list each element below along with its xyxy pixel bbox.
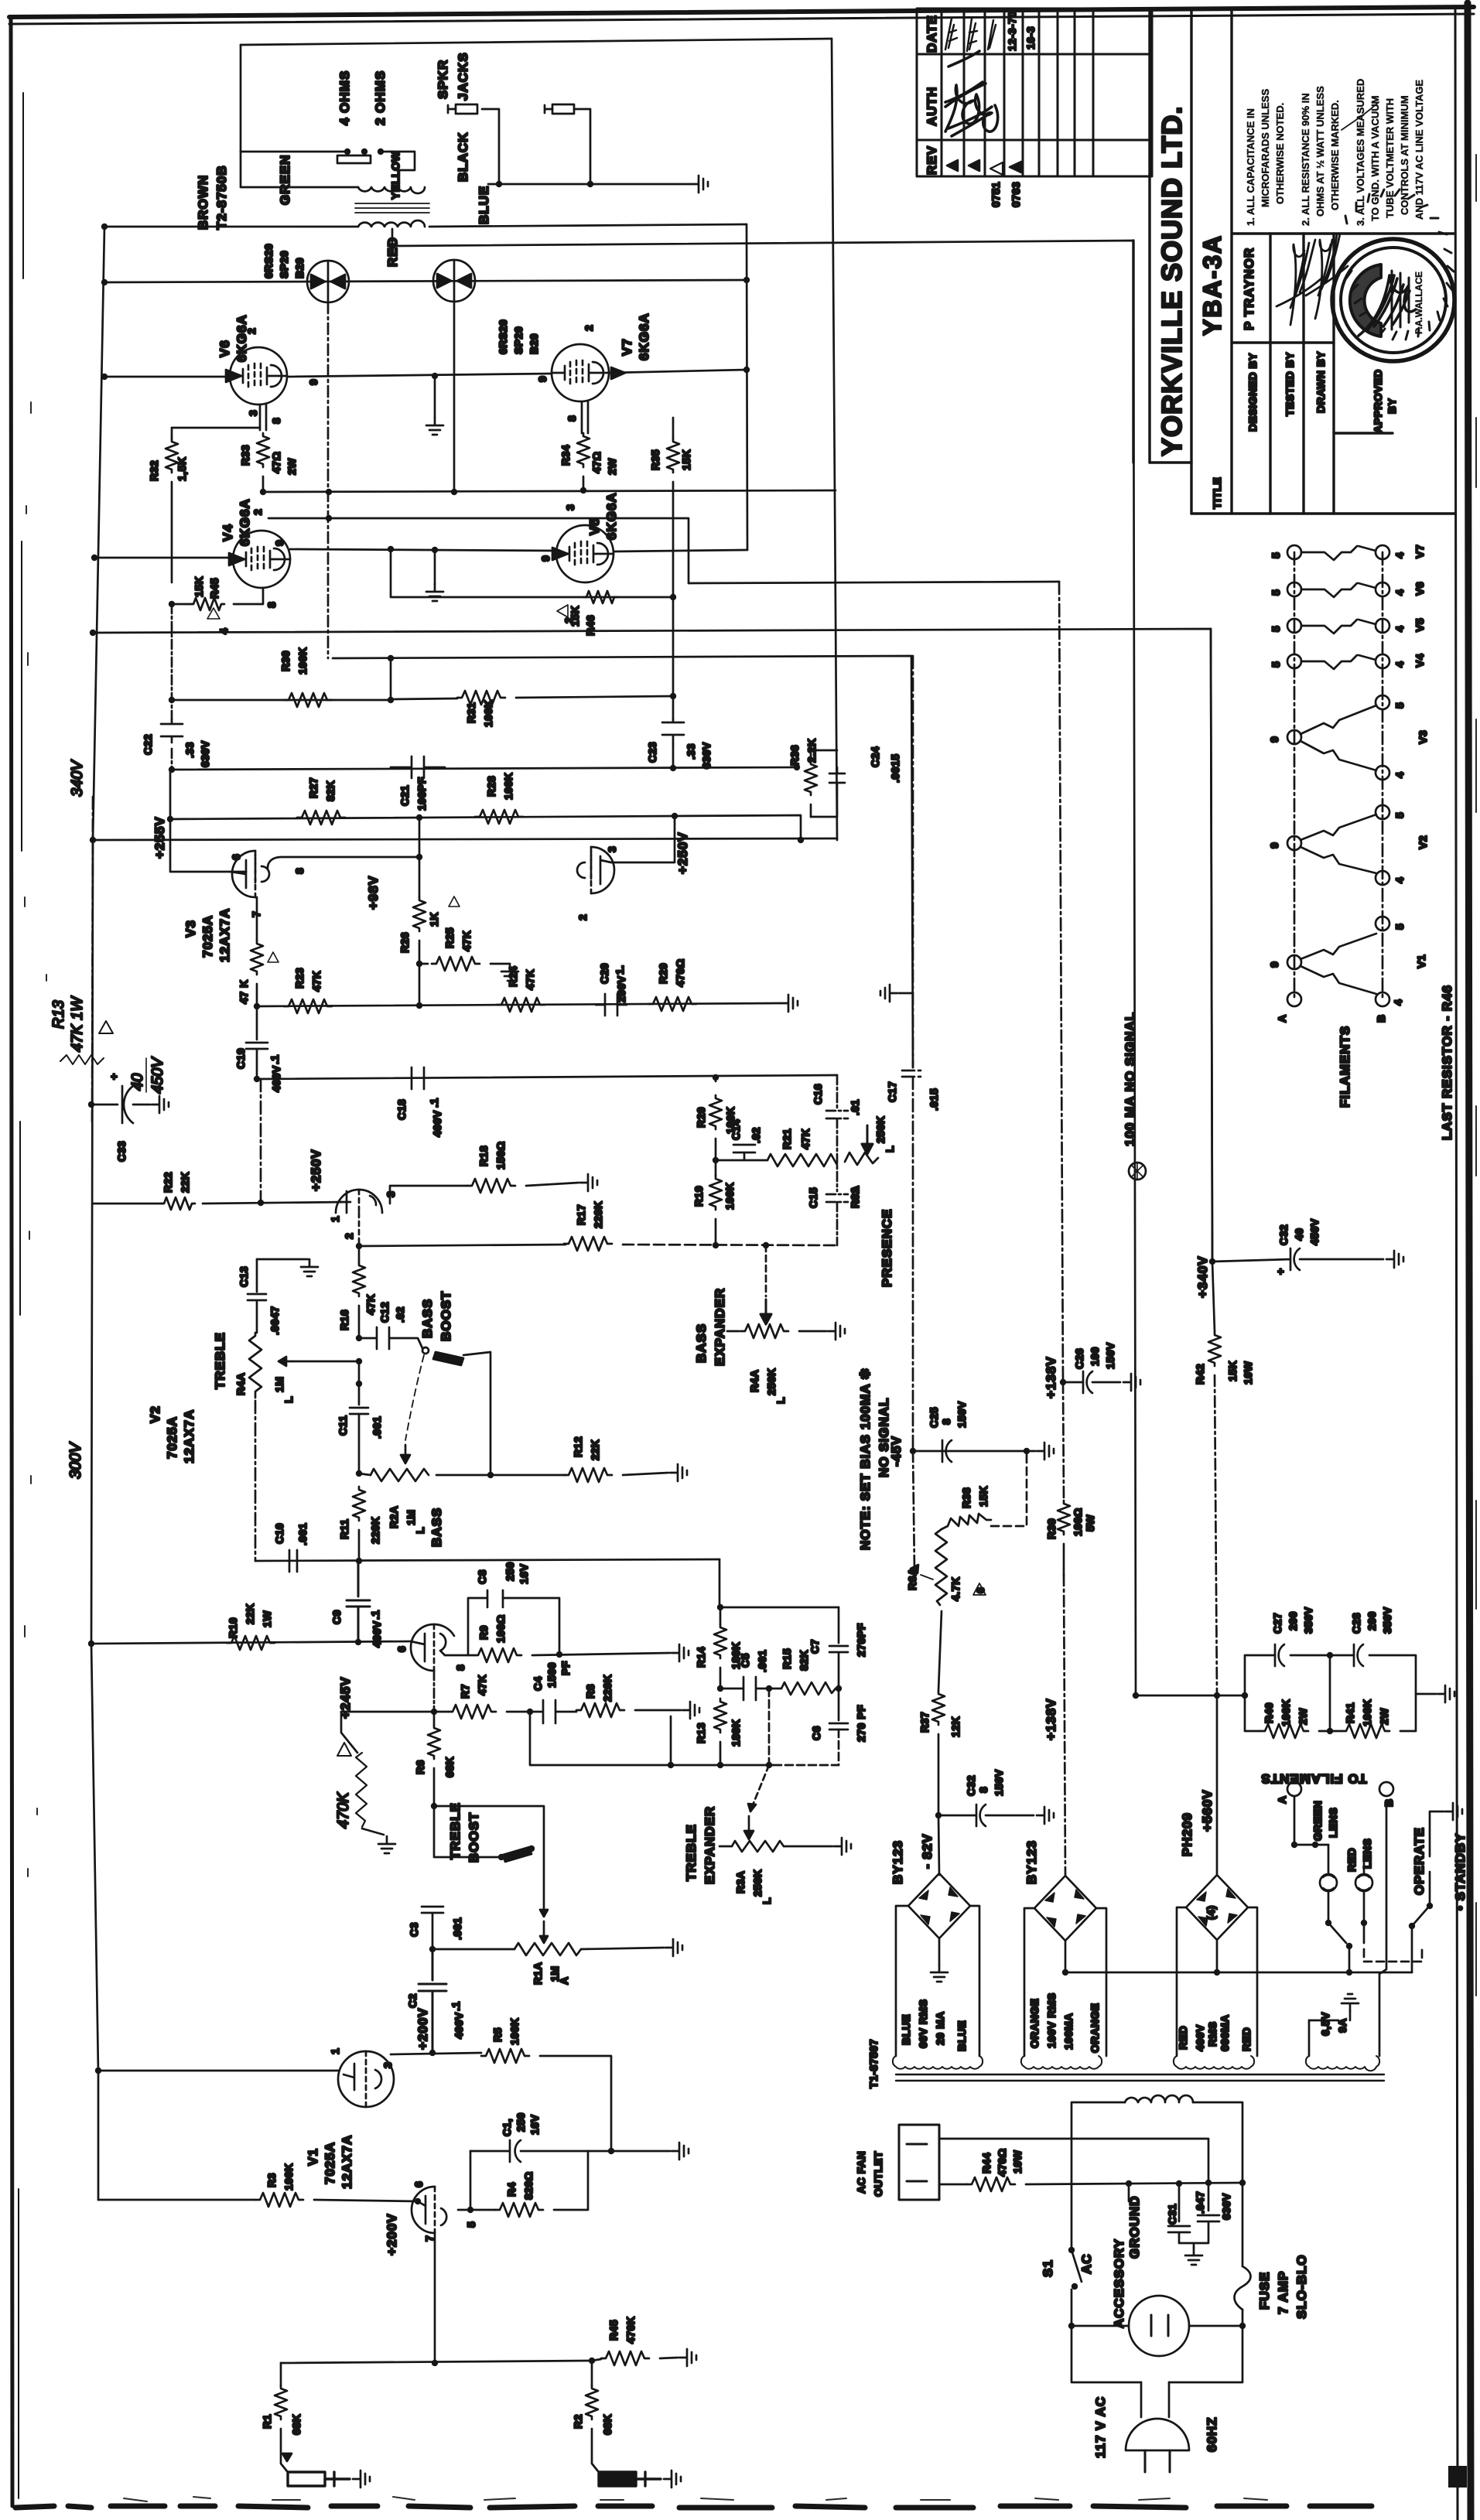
socket row V7 [1287,545,1301,559]
wire V2b cathode to R18 [390,1186,467,1204]
svg-text:47K: 47K [524,969,536,990]
svg-text:C33: C33 [115,1141,128,1162]
capacitor C6 [829,1689,848,1730]
svg-text:SPKR: SPKR [436,60,450,99]
svg-text:4: 4 [1392,999,1404,1006]
svg-text:.1: .1 [268,1054,281,1064]
svg-text:V6: V6 [1413,582,1426,596]
svg-text:V7: V7 [620,338,634,356]
pilot lamp circuit [1294,1796,1328,1845]
svg-text:2: 2 [562,617,575,623]
wire V1b plate row [91,1641,411,1644]
svg-text:REV: REV [925,145,939,175]
border right inner [1455,6,1458,2520]
svg-text:C7: C7 [808,1639,821,1654]
input jack J2 [599,2472,636,2486]
wire treble pot bottom column [255,1401,257,1561]
svg-text:AC: AC [1079,2253,1094,2274]
resistor 470K handwritten [341,1712,357,1753]
svg-text:1: 1 [329,2048,341,2054]
resistor R32 [166,439,178,473]
svg-text:R40: R40 [1263,1702,1275,1723]
AC fan outlet [899,2125,939,2200]
svg-text:C32: C32 [965,1775,977,1796]
svg-text:V1: V1 [1415,954,1427,968]
svg-text:.0015: .0015 [889,753,901,783]
svg-text:C25: C25 [928,1407,940,1428]
svg-text:S1: S1 [1041,2259,1055,2277]
resistor R39 [1058,1501,1070,1535]
svg-text:+98V: +98V [366,876,381,910]
svg-text:B20: B20 [293,258,306,278]
svg-text:2W: 2W [1378,1708,1390,1725]
wire cathode node [458,2209,495,2211]
svg-text:1.: 1. [614,965,626,975]
svg-text:68K: 68K [443,1757,456,1777]
resistor R29 [648,997,696,1011]
svg-text:6: 6 [412,2181,425,2187]
svg-text:L: L [282,1396,295,1403]
svg-text:400V: 400V [453,2012,465,2039]
ground R29 [781,995,798,1012]
svg-text:C27: C27 [1271,1613,1283,1634]
capacitor C17 on bias column [902,656,924,1451]
svg-text:4: 4 [1393,772,1406,778]
svg-text:L: L [774,1397,787,1404]
svg-text:TO GND. WITH A VACUUM: TO GND. WITH A VACUUM [1369,96,1381,222]
resistor R46 [583,591,617,603]
svg-text:1,5K: 1,5K [176,456,188,481]
svg-text:47 K: 47 K [238,979,250,1004]
wire V3a plate drop [419,818,421,857]
svg-text:FUSE: FUSE [1257,2272,1272,2310]
svg-text:250K: 250K [874,1116,887,1143]
svg-text:270PF: 270PF [855,1623,867,1657]
border left [11,17,12,2506]
svg-text:+: + [108,1073,120,1080]
transformer T2 core [355,203,429,213]
resistor R45 470K [589,2358,595,2364]
socket V1 [1287,955,1301,969]
wire speaker box top [241,39,832,45]
svg-text:V6: V6 [217,340,232,357]
socket row V6 [1287,582,1301,596]
svg-text:BASS: BASS [429,1508,444,1547]
svg-text:DRAWN BY: DRAWN BY [1314,351,1327,413]
svg-text:RED: RED [385,237,400,267]
wire R12 row [490,1474,566,1477]
svg-text:12-3-70: 12-3-70 [1006,11,1018,51]
svg-text:6RS20: 6RS20 [497,319,509,354]
bridge BY123 bias [908,1873,970,1938]
svg-text:C20: C20 [598,963,610,984]
svg-text:C23: C23 [646,742,658,763]
svg-text:A: A [1276,1014,1288,1023]
svg-text:12AX7A: 12AX7A [182,1409,197,1463]
wire to bridge 1 [938,1815,939,1875]
svg-text:C26: C26 [1073,1348,1085,1369]
svg-text:20 MA: 20 MA [934,2011,946,2045]
svg-text:C19: C19 [234,1048,247,1069]
svg-text:TREBLE: TREBLE [448,1802,463,1859]
svg-text:100K: 100K [723,1183,736,1210]
resistor R38 [942,1514,991,1529]
svg-text:.001: .001 [296,1523,309,1545]
lamp red [1355,1874,1372,1891]
svg-text:SLO-BLO: SLO-BLO [1294,2255,1309,2320]
svg-text:R4: R4 [505,2182,518,2197]
capacitor C19 [246,1006,268,1079]
svg-text:BOOST: BOOST [467,1812,481,1863]
svg-text:100Ω: 100Ω [494,1614,507,1643]
svg-text:BLACK: BLACK [456,132,470,183]
svg-text:4 OHMS: 4 OHMS [337,70,352,125]
pot R4A treble [249,1333,261,1398]
ground R8 [682,1702,699,1719]
svg-text:3: 3 [564,504,576,510]
primary coil [1125,2095,1193,2102]
svg-text:BLUE: BLUE [477,186,491,224]
svg-text:9: 9 [539,555,552,562]
svg-text:150Ω: 150Ω [494,1141,507,1170]
svg-text:9: 9 [1268,961,1280,968]
ground jack rail [691,176,708,193]
svg-text:+340V: +340V [1195,1255,1210,1298]
wire V2b plate row [93,1202,347,1204]
svg-text:.01: .01 [849,1099,861,1115]
wire treble boost node [431,1803,437,1809]
wire dashed presence row [623,1245,837,1245]
svg-text:.047: .047 [1194,2191,1206,2214]
capacitor C33 electrolytic [91,1086,150,1123]
shield box C8 R9 [468,1598,559,1655]
svg-text:R22: R22 [162,1172,174,1193]
capacitor C32 bias [935,1812,942,1818]
rail C23 [672,597,675,768]
svg-text:R16: R16 [338,1310,350,1330]
svg-text:7 AMP: 7 AMP [1276,2271,1290,2314]
svg-text:R14: R14 [695,1647,707,1668]
svg-text:6KG6A: 6KG6A [238,498,252,546]
svg-text:V5: V5 [587,517,602,535]
svg-text:200: 200 [1365,1611,1378,1630]
svg-text:6: 6 [230,854,242,860]
operate standby switch [1325,1920,1331,1926]
svg-text:V2: V2 [1417,835,1429,849]
svg-text:3: 3 [381,2062,394,2068]
svg-text:5: 5 [1393,924,1406,930]
svg-text:.0047: .0047 [268,1306,281,1335]
resistor R17 [564,1237,612,1251]
svg-text:R1A: R1A [532,1962,544,1985]
wire V6 to V7 [287,374,552,377]
svg-text:3: 3 [606,846,618,852]
terminals A B [1287,992,1301,1006]
svg-text:400V: 400V [431,1110,443,1137]
wire V1 grid drop [434,2233,436,2363]
svg-text:0763: 0763 [1010,182,1022,207]
svg-text:15K: 15K [977,1486,990,1507]
svg-text:T1-87507: T1-87507 [867,2039,880,2088]
wire expander feed [768,1689,771,1765]
svg-text:630V: 630V [199,740,211,767]
wire V7 plate to bus [609,370,747,373]
svg-text:SP20: SP20 [512,326,525,354]
svg-text:C31: C31 [1166,2204,1178,2225]
svg-text:-45V: -45V [889,1436,904,1467]
svg-text:R9: R9 [477,1625,490,1640]
wire blue bus down [747,224,747,550]
wire V5 plate [614,550,747,551]
transformer T2 secondary coil [358,187,425,193]
svg-text:2: 2 [343,1233,355,1239]
capacitor C28 [1354,1644,1363,1666]
capacitor C4 [543,1700,576,1723]
ground R1A [665,1939,682,1956]
svg-text:5: 5 [1270,589,1282,596]
resistor R5 [481,2049,529,2063]
svg-text:R4A: R4A [748,1369,761,1392]
svg-text:P TRAYNOR: P TRAYNOR [1242,248,1256,330]
svg-text:68K: 68K [601,2414,614,2435]
svg-text:BROWN: BROWN [196,175,210,230]
svg-text:C11: C11 [337,1415,349,1436]
svg-text:+138V: +138V [1044,1698,1058,1740]
svg-text:TESTED BY: TESTED BY [1283,352,1296,416]
wire brown primary left [104,226,358,228]
svg-text:47K: 47K [364,1294,377,1315]
wire +255 node rail [170,769,246,872]
triode V1c half [412,2187,446,2233]
wire bottom HT row [172,767,797,770]
svg-text:.001: .001 [371,1416,383,1439]
svg-text:6KG6A: 6KG6A [234,314,249,362]
signature 2 [1306,234,1348,319]
resistor R8 [576,1703,624,1717]
resistor R40 [1260,1724,1308,1738]
svg-text:NOTE: SET BIAS 100MA ✱: NOTE: SET BIAS 100MA ✱ [858,1368,873,1550]
resistor R45 [190,598,224,610]
svg-text:TREBLE: TREBLE [684,1824,699,1881]
svg-text:OHMS AT ½ WATT UNLESS: OHMS AT ½ WATT UNLESS [1314,86,1326,217]
svg-text:R45: R45 [607,2320,620,2341]
svg-text:P.A.WALLACE: P.A.WALLACE [1413,271,1424,334]
svg-text:6: 6 [974,1587,986,1593]
capacitor C21 [391,756,445,778]
svg-text:C14: C14 [730,1119,742,1140]
svg-text:47K: 47K [310,971,323,992]
svg-text:68K: 68K [290,2414,302,2435]
svg-text:12AX7A: 12AX7A [340,2135,354,2189]
svg-text:R28: R28 [485,776,497,797]
svg-text:BASS: BASS [420,1299,435,1338]
svg-text:150V: 150V [993,1769,1005,1796]
bridge 1 rails [896,1906,979,2056]
bridge PH209 [1186,1875,1248,1940]
svg-text:.1: .1 [369,1610,381,1620]
svg-text:R41: R41 [1344,1702,1356,1723]
capacitor C22 [161,719,183,743]
resistor R36 [811,750,837,762]
ground screen V6V7 [434,377,436,418]
svg-text:1K: 1K [428,912,440,927]
resistor R31 [457,691,505,705]
svg-text:T2-8750B: T2-8750B [214,165,229,230]
wire tap hook [381,152,415,170]
capacitor C1 [470,2140,670,2162]
svg-text:V1: V1 [306,2148,320,2166]
svg-text:9: 9 [1268,842,1280,849]
svg-text:350V: 350V [1381,1607,1393,1634]
svg-text:.1: .1 [428,1098,440,1108]
svg-text:100K: 100K [508,2018,521,2045]
resistor R21 [767,1154,837,1166]
svg-text:470Ω: 470Ω [674,958,686,987]
svg-text:3: 3 [247,410,259,416]
wire green lead [241,152,358,187]
wire PH209 column [1216,1695,1219,1972]
svg-text:100K: 100K [282,2163,295,2190]
svg-text:C4: C4 [532,1676,544,1691]
resistor R35 [672,418,675,439]
wire heater bus row [1065,1972,1412,1974]
svg-text:100MA: 100MA [1062,2013,1075,2050]
svg-text:BY123: BY123 [890,1840,905,1884]
wire V3a plate row [268,857,419,868]
capacitor C2 [419,1949,446,2051]
capacitor C23 [662,719,684,744]
resistor R12 [564,1468,612,1482]
svg-text:L: L [414,1527,426,1534]
capacitor C18 [412,1067,424,1089]
svg-text:R17: R17 [575,1204,587,1225]
svg-text:SP20: SP20 [278,251,290,278]
svg-text:2: 2 [576,914,589,920]
wire +560V rail to title area [392,241,1136,1695]
svg-text:250: 250 [504,1562,516,1581]
svg-text:EXPANDER: EXPANDER [713,1288,727,1366]
svg-text:R38: R38 [960,1487,972,1508]
socket row V5 [1287,619,1301,633]
wire screen feed to +138V column [689,582,1059,583]
capacitor C12 [356,1335,362,1341]
svg-text:150V: 150V [1104,1342,1116,1369]
svg-text:AC FAN: AC FAN [855,2151,867,2194]
socket V2 [1287,836,1301,850]
svg-text:2: 2 [583,325,595,331]
svg-text:A: A [558,1976,570,1985]
svg-text:200V: 200V [615,975,627,1002]
C27 C28 R40 R41 box [1245,1655,1416,1731]
svg-text:R7: R7 [459,1684,471,1699]
svg-text:100PF: 100PF [415,777,428,811]
svg-text:R25: R25 [443,927,456,948]
svg-text:TUBE VOLTMETER WITH: TUBE VOLTMETER WITH [1384,98,1396,218]
svg-text:BOOST: BOOST [439,1291,453,1341]
wire C4 R8 loop [530,1712,774,1765]
svg-text:250K: 250K [751,1870,764,1897]
outlet wires [939,2139,1208,2183]
ground R18 [580,1174,597,1191]
star symbol [1129,1163,1146,1180]
resistor R6 [433,1712,436,1725]
svg-text:16V: 16V [518,1563,530,1584]
svg-text:6KG6A: 6KG6A [604,492,619,540]
svg-text:C2: C2 [406,1993,419,2008]
svg-text:+255V: +255V [152,816,167,859]
svg-text:8: 8 [270,418,282,424]
svg-text:ORANGE: ORANGE [1028,1999,1041,2048]
svg-text:+200V: +200V [385,2213,399,2255]
svg-text:47K: 47K [799,1129,812,1149]
svg-text:BY: BY [1386,398,1398,414]
wire R3 row [98,2199,255,2201]
svg-text:100K: 100K [502,773,514,800]
svg-text:300V: 300V [67,1442,84,1479]
ground R12 [670,1464,687,1481]
AUTH signatures scribble [945,51,998,136]
svg-text:C17: C17 [886,1081,898,1102]
svg-text:C21: C21 [398,785,411,806]
svg-text:R30: R30 [279,650,292,671]
svg-text:9: 9 [536,376,549,382]
svg-text:.001: .001 [756,1650,768,1672]
svg-text:630V: 630V [700,742,713,769]
wire input row [281,2361,592,2363]
svg-text:+138V: +138V [1044,1356,1058,1398]
wire diode rail [104,280,747,282]
svg-text:250K: 250K [765,1368,778,1395]
svg-text:5: 5 [1393,702,1406,709]
svg-text:100: 100 [1089,1347,1101,1366]
resistor R3 [255,2193,303,2207]
resistor R37 [932,1691,945,1725]
REV triangles [947,160,979,171]
revision table frame [917,9,1152,176]
svg-text:12K: 12K [949,1716,962,1737]
svg-text:600MA: 600MA [1219,2014,1231,2051]
wire presence mid row [716,1159,767,1162]
svg-text:15K: 15K [193,576,205,597]
treble boost switch [503,1847,532,1862]
svg-text:4: 4 [1393,661,1406,668]
svg-text:6KG6A: 6KG6A [637,312,651,360]
svg-text:MICROFARADS UNLESS: MICROFARADS UNLESS [1260,89,1271,207]
svg-text:GREEN: GREEN [278,155,292,205]
svg-text:9: 9 [273,540,285,546]
svg-text:R2: R2 [572,2414,584,2429]
svg-text:R5: R5 [491,2027,504,2042]
approval stamp [1332,190,1454,361]
wire jack ground rail [488,183,691,186]
svg-text:L: L [884,1146,896,1152]
wire diode D2 drop [453,302,456,492]
svg-text:R13: R13 [695,1723,707,1743]
wire +340V column [1211,629,1212,1262]
jack J2 [545,104,574,114]
svg-text:47K: 47K [476,1675,488,1695]
svg-text:7025A: 7025A [323,2142,337,2184]
tube V4 [233,531,290,588]
ground C25 [1037,1443,1054,1460]
pot R2A bass [356,1470,362,1477]
revision scribbles: dates [945,19,996,51]
diode D1 6RS20 [307,261,349,302]
resistor R44 [967,2177,1015,2191]
svg-text:R20: R20 [695,1107,707,1128]
resistor R7 [448,1705,496,1719]
svg-text:• STANDBY: • STANDBY [1453,1832,1468,1910]
